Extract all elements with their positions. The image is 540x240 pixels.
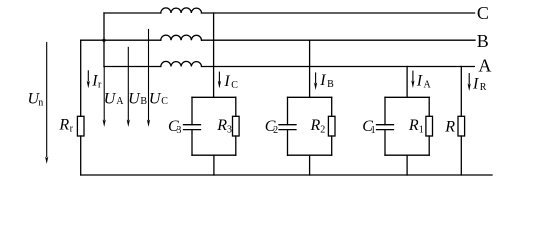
svg-text:I: I xyxy=(319,72,326,89)
inductor winding phase A xyxy=(161,61,202,66)
arrow UA shaft xyxy=(103,67,105,121)
svg-text:2: 2 xyxy=(273,125,278,136)
wire C2 top lead xyxy=(287,97,289,124)
arrow IB head xyxy=(314,83,317,91)
wire R3 bottom lead xyxy=(235,136,237,155)
svg-text:A: A xyxy=(116,96,124,107)
arrow UA head xyxy=(103,120,106,128)
arrow IA shaft xyxy=(412,71,414,82)
wire R2 top lead xyxy=(331,97,333,116)
arrow Ir head xyxy=(87,81,90,89)
svg-text:C: C xyxy=(161,96,168,107)
svg-text:B: B xyxy=(140,96,147,107)
svg-text:C: C xyxy=(231,80,238,91)
wire tank C2R2 bottom rail xyxy=(288,154,332,156)
arrow UB shaft xyxy=(127,47,129,121)
svg-text:A: A xyxy=(424,79,432,90)
inductor winding phase C xyxy=(161,8,202,13)
svg-text:R: R xyxy=(58,117,69,134)
wire IB drop from B line to tank2 xyxy=(309,40,311,97)
wire B phase line with neutral stub xyxy=(81,39,161,41)
svg-text:U: U xyxy=(128,90,141,107)
arrow IC head xyxy=(218,81,221,89)
arrow IB shaft xyxy=(315,72,317,83)
wire A phase line right segment xyxy=(202,66,475,68)
svg-text:R: R xyxy=(216,117,227,134)
svg-text:U: U xyxy=(104,90,117,107)
capacitor C2 plates xyxy=(279,125,296,130)
svg-text:R: R xyxy=(480,82,487,93)
arrow Un shaft xyxy=(46,42,48,157)
wire C2 bottom lead xyxy=(287,130,289,156)
svg-text:R: R xyxy=(408,117,419,134)
svg-text:I: I xyxy=(416,73,423,90)
svg-text:3: 3 xyxy=(176,125,181,136)
svg-text:C: C xyxy=(477,3,489,23)
wire R3 top lead xyxy=(235,97,237,116)
arrow Ir shaft xyxy=(87,70,89,81)
wire neutral branch down to Rr xyxy=(80,40,82,116)
svg-text:r: r xyxy=(70,124,74,135)
wire R1 bottom lead xyxy=(428,136,430,155)
resistor R1 xyxy=(426,116,433,136)
wire C phase line right segment xyxy=(202,12,475,14)
svg-text:I: I xyxy=(472,75,479,92)
svg-text:2: 2 xyxy=(320,124,325,135)
arrow IA head xyxy=(411,81,414,89)
wire R drop from A line xyxy=(460,67,462,117)
wire IA drop from A line to tank1 xyxy=(406,67,408,98)
arrow Un head xyxy=(45,157,48,165)
capacitor C1 plates xyxy=(377,125,394,130)
wire C phase line left segment xyxy=(104,12,161,14)
capacitor C3 plates xyxy=(184,125,201,130)
inductor winding phase B xyxy=(161,35,202,40)
svg-text:R: R xyxy=(444,119,455,136)
wire tank C1R1 top rail xyxy=(385,96,429,98)
svg-text:B: B xyxy=(327,79,334,90)
resistor R3 xyxy=(233,116,240,136)
svg-text:A: A xyxy=(478,56,491,76)
wire A phase line left segment xyxy=(104,66,161,68)
wire tank C2R2 drop to bus xyxy=(309,155,311,175)
wire tank C3R3 bottom rail xyxy=(192,154,236,156)
wire C3 top lead xyxy=(191,97,193,124)
resistor R xyxy=(458,116,465,136)
wire bottom bus xyxy=(81,174,492,176)
arrow UC head xyxy=(147,120,150,128)
wire R to bottom bus xyxy=(460,136,462,175)
arrow IC shaft xyxy=(218,72,220,82)
svg-text:r: r xyxy=(98,79,102,90)
wire IC drop from C line to tank3 xyxy=(213,13,215,97)
arrow UB head xyxy=(127,120,130,128)
wire R2 bottom lead xyxy=(331,136,333,155)
wire neutral vertical joining winding star point xyxy=(103,13,105,67)
resistor R2 xyxy=(328,116,335,136)
wire tank C3R3 top rail xyxy=(192,96,236,98)
svg-text:1: 1 xyxy=(371,125,376,136)
svg-text:R: R xyxy=(310,117,321,134)
svg-text:n: n xyxy=(38,98,43,109)
wire tank C3R3 drop to bus xyxy=(213,155,215,175)
resistor Rr xyxy=(77,116,84,136)
svg-text:1: 1 xyxy=(419,124,424,135)
wire C3 bottom lead xyxy=(191,130,193,156)
wire tank C1R1 bottom rail xyxy=(385,154,429,156)
arrow IR head xyxy=(468,84,471,92)
wire R1 top lead xyxy=(428,97,430,116)
wire B phase line right segment xyxy=(202,39,476,41)
svg-text:U: U xyxy=(149,90,162,107)
wire tank C1R1 drop to bus xyxy=(406,155,408,175)
wire C1 bottom lead xyxy=(384,130,386,156)
wire C1 top lead xyxy=(384,97,386,124)
arrow UC shaft xyxy=(148,29,150,121)
node star-point junction dot xyxy=(102,39,105,42)
wire tank C2R2 top rail xyxy=(288,96,332,98)
svg-text:3: 3 xyxy=(227,124,232,135)
svg-text:I: I xyxy=(223,73,230,90)
svg-text:B: B xyxy=(477,31,489,51)
wire Rr to bottom bus xyxy=(80,136,82,175)
arrow IR shaft xyxy=(468,73,470,85)
